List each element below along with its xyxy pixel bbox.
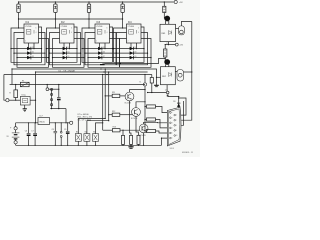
svg-text:D3: D3 [67, 47, 69, 49]
svg-text:D5: D5 [67, 56, 69, 58]
node +5V terminal [174, 0, 177, 3]
resistor R19 [145, 119, 147, 121]
wire V+ drop [35, 72, 37, 123]
diode D5 row IC2 [50, 52, 81, 54]
relay RE2 [161, 67, 176, 85]
fuse F1 [20, 82, 29, 86]
transistor T5 [164, 59, 170, 65]
wire loop 2 IC4 [117, 33, 148, 65]
ground middle [102, 63, 104, 65]
wire rail A [105, 59, 166, 64]
wire loop 2 IC3 [85, 33, 116, 65]
resistor R15 [163, 6, 166, 12]
node K3 terminal [6, 99, 9, 102]
wire K1 right 1 [179, 98, 186, 115]
wire R15-T4 [163, 13, 165, 19]
svg-text:+5V: +5V [179, 2, 183, 4]
diode D12 row IC4 [120, 57, 152, 59]
svg-text:030303 - 11: 030303 - 11 [182, 152, 194, 154]
wire loop 1 IC4 [114, 27, 145, 62]
wire LA1 feed [148, 92, 167, 94]
svg-text:D3: D3 [32, 56, 34, 58]
diode D8 row IC3 [85, 52, 116, 54]
wire BZ1-right [181, 22, 191, 26]
resistor R18 [14, 90, 18, 98]
svg-text:D9: D9 [134, 56, 136, 58]
diode D1 row IC1 [11, 48, 42, 50]
wire RE2 gnd pin [157, 76, 161, 78]
diode D3 row IC1 [17, 57, 49, 59]
resistor R22 [137, 135, 140, 144]
connector K1 pins [170, 112, 172, 114]
svg-text:LTV846: LTV846 [128, 26, 134, 28]
wire S1 up [78, 119, 105, 134]
wire IC2 pin stubs [63, 43, 65, 49]
svg-text:12: 12 [165, 89, 167, 91]
wire T2 emitter [136, 116, 139, 135]
wire bus v1 [104, 69, 106, 119]
svg-text:D8: D8 [134, 52, 136, 54]
buzzer BZ1 [179, 26, 185, 35]
ground IC5a [24, 105, 26, 109]
resistor R17 [151, 75, 153, 78]
svg-text:C7: C7 [31, 131, 33, 133]
buzzer BZ2 [177, 70, 184, 82]
wire rail C [36, 71, 148, 73]
ground right [154, 84, 159, 86]
wire rail D [4, 74, 152, 76]
svg-text:D1 ... D8 = 1N4148: D1 ... D8 = 1N4148 [59, 71, 75, 73]
wire rail B [12, 69, 157, 85]
wire +5V top rail [19, 1, 174, 3]
svg-text:D9: D9 [173, 101, 175, 103]
capacitor C7 [34, 123, 36, 134]
wire T1 collector [130, 90, 146, 93]
wire R15 feed [164, 1, 165, 2]
svg-text:D4: D4 [67, 52, 69, 54]
wire loop 3 IC2 [53, 39, 85, 68]
svg-text:LTV846: LTV846 [96, 26, 102, 28]
capacitor C8 [54, 123, 56, 132]
svg-text:X1: X1 [139, 82, 141, 84]
LED D4 channel 4 [122, 1, 123, 2]
svg-text:D7: D7 [134, 47, 136, 49]
wire T3 collector [144, 122, 168, 124]
wire K1 right 2 [181, 101, 183, 125]
wire bus v2 [108, 72, 110, 121]
LED D3 channel 3 [88, 1, 89, 2]
connector header K4 [51, 89, 53, 104]
LED D1 channel 1 [18, 1, 19, 2]
wire gnd stub rail [50, 108, 66, 110]
svg-text:LTV846: LTV846 [25, 26, 31, 28]
svg-text:C6: C6 [25, 131, 27, 133]
wire T2 collector [136, 102, 145, 108]
wire K1 gnd stub [162, 138, 168, 145]
wire right bus [181, 22, 192, 121]
transistor T4 [164, 16, 170, 22]
transistor T1 [125, 92, 134, 101]
svg-text:D5: D5 [103, 47, 105, 49]
wire R16-T5 [164, 57, 166, 62]
wire loop 3 IC3 [88, 39, 120, 68]
wire R18 out [15, 98, 17, 101]
resistor R21 [130, 135, 133, 144]
crystal X2 [60, 123, 62, 132]
node X1 terminal [144, 75, 146, 83]
svg-text:D6: D6 [103, 52, 105, 54]
wire RE1 bottom [167, 42, 169, 45]
transistor T3 [139, 124, 148, 133]
wire aux rail [19, 18, 123, 20]
wire loop 3 IC4 [120, 39, 152, 68]
wire T1 emitter [130, 101, 132, 136]
svg-text:78L05: 78L05 [39, 122, 45, 124]
capacitor C9 [67, 123, 69, 132]
wire T3 emitter [143, 133, 145, 146]
battery BT1 [15, 123, 17, 127]
wire bus v3 [102, 75, 104, 131]
node LA1 terminal [166, 91, 169, 94]
wire loop 1 IC1 [11, 27, 42, 62]
capacitor C6 [28, 123, 30, 134]
node +5V out terminal [70, 121, 73, 124]
ground bottom [130, 145, 132, 147]
node +6V terminal [175, 43, 178, 46]
svg-text:C8: C8 [52, 129, 54, 131]
wire BZ2-right [184, 71, 192, 73]
resistor R20 [122, 130, 124, 135]
wire +rail PSU [16, 122, 38, 124]
wire IC5a out [30, 99, 35, 101]
diode D9 [178, 103, 180, 107]
wire loop 1 IC3 [82, 27, 113, 62]
wire loop 2 IC1 [14, 33, 45, 65]
wire IC1 pin stubs [28, 43, 30, 49]
svg-text:R11: R11 [112, 92, 115, 94]
diode D7 row IC3 [82, 48, 113, 50]
svg-text:C9: C9 [64, 129, 66, 131]
svg-text:BC547B: BC547B [139, 135, 146, 137]
svg-text:BC547B: BC547B [125, 103, 132, 105]
wire IC4 pin stubs [130, 43, 132, 49]
diode D2 row IC1 [14, 52, 45, 54]
resistor R23 [145, 130, 147, 132]
wire S3 up [96, 123, 103, 134]
diode D9 row IC3 [88, 57, 120, 59]
wire ground rail [16, 144, 162, 146]
wire rail +6V [165, 44, 175, 46]
wire left bus [4, 75, 6, 101]
wire LA1-D9 [168, 95, 179, 96]
svg-text:D1: D1 [32, 47, 34, 49]
node K2 jack [46, 85, 48, 88]
resistor R14 [145, 106, 147, 108]
wire X1 bus [144, 86, 146, 131]
svg-text:D7: D7 [103, 56, 105, 58]
diode D4 row IC2 [47, 48, 78, 50]
wire S2 up [87, 121, 109, 134]
transistor T2 [132, 108, 141, 117]
wire loop 2 IC2 [50, 33, 81, 65]
resistor R16 [164, 45, 166, 49]
wire rail E [10, 84, 145, 86]
LED D2 channel 2 [55, 1, 56, 2]
diode D6 row IC2 [53, 57, 85, 59]
svg-text:LTV846: LTV846 [61, 26, 67, 28]
svg-text:BC547B: BC547B [131, 118, 138, 120]
svg-text:IC5 = 40106: IC5 = 40106 [78, 114, 90, 116]
wire fuse feed [11, 69, 13, 85]
relay RE1 [160, 24, 176, 41]
wire IC3 pin stubs [99, 43, 101, 49]
svg-text:D2: D2 [32, 52, 34, 54]
wire +rail PSU2 [50, 122, 70, 124]
capacitor C5 [58, 85, 60, 98]
wire RE2 bottom [166, 85, 168, 92]
diode D11 row IC4 [117, 52, 148, 54]
diode D10 row IC4 [114, 48, 145, 50]
wire loop 3 IC1 [17, 39, 49, 68]
wire loop 1 IC2 [47, 27, 78, 62]
